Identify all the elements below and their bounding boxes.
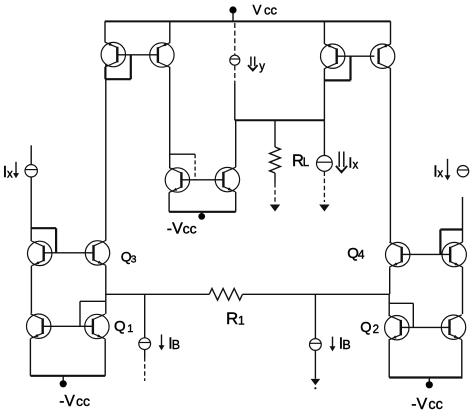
svg-text:2: 2 xyxy=(373,324,379,336)
svg-text:x: x xyxy=(7,168,13,180)
svg-text:-V: -V xyxy=(167,221,183,238)
svg-text:x: x xyxy=(353,159,359,171)
svg-text:1: 1 xyxy=(127,323,133,335)
svg-text:B: B xyxy=(172,338,180,352)
svg-text:L: L xyxy=(303,157,310,169)
svg-text:cc: cc xyxy=(428,397,443,412)
svg-text:R: R xyxy=(226,309,238,328)
svg-text:-V: -V xyxy=(59,393,75,410)
svg-text:y: y xyxy=(259,61,265,73)
svg-text:3: 3 xyxy=(131,254,137,266)
svg-text:V: V xyxy=(253,3,262,18)
svg-text:Q: Q xyxy=(360,320,371,336)
svg-text:B: B xyxy=(342,338,350,352)
svg-text:cc: cc xyxy=(264,2,278,17)
svg-text:x: x xyxy=(437,168,443,180)
svg-text:-V: -V xyxy=(411,396,427,412)
svg-text:cc: cc xyxy=(76,393,90,409)
svg-text:4: 4 xyxy=(358,248,365,262)
svg-text:cc: cc xyxy=(183,221,197,237)
svg-text:1: 1 xyxy=(238,313,245,327)
svg-text:Q: Q xyxy=(114,318,126,335)
